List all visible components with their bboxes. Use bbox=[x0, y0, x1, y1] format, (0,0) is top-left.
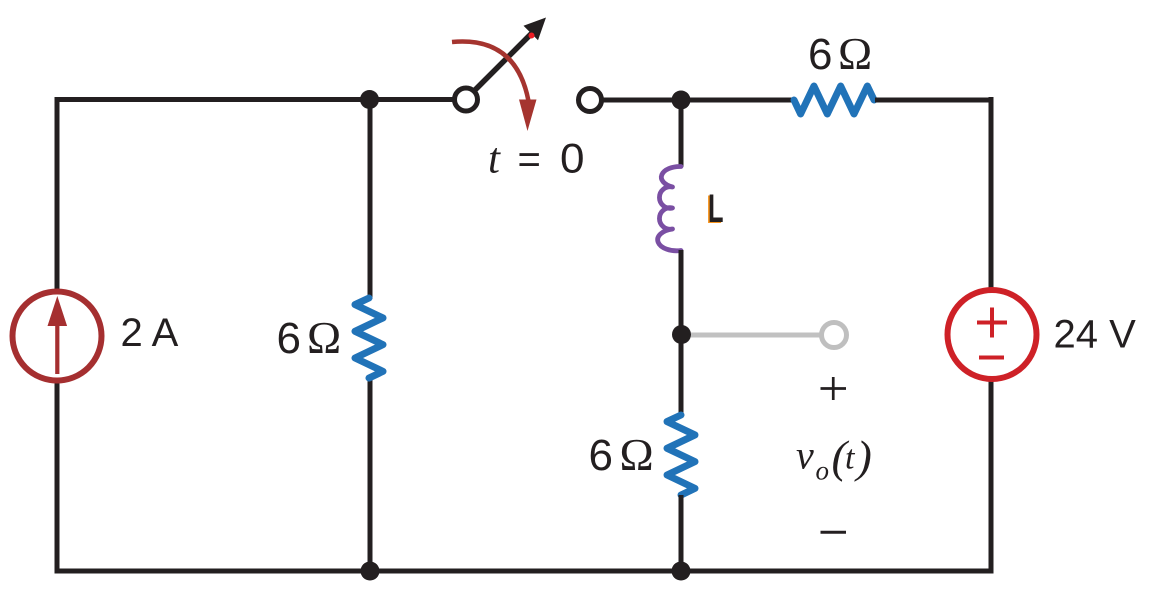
svg-text:6Ω: 6Ω bbox=[277, 312, 342, 363]
node: junction dot bottom of middle branch bbox=[361, 562, 380, 581]
svg-text:6Ω: 6Ω bbox=[589, 429, 654, 480]
resistor R3 6ohm lower inductor branch zigzag bbox=[667, 415, 695, 495]
resistor R2 6ohm top-right zigzag bbox=[794, 86, 874, 114]
wire: gray output lead bbox=[691, 333, 821, 338]
switch SW1 right terminal circle bbox=[579, 89, 602, 112]
svg-text:t: t bbox=[845, 440, 856, 477]
switch SW1 blade arrowhead bbox=[524, 18, 547, 41]
label plus polarity bbox=[821, 377, 847, 400]
wire: top horizontal from left corner to switch bbox=[55, 97, 454, 102]
wire: from R2 to top-right corner bbox=[875, 98, 994, 103]
svg-text:o: o bbox=[816, 456, 830, 486]
inductor L coil bbox=[658, 166, 681, 250]
wire: middle branch vertical (above R1) bbox=[368, 100, 373, 300]
wire: inductor branch from coil bottom to middle node bbox=[679, 250, 684, 416]
wire: bottom horizontal rail bbox=[55, 569, 994, 574]
node: junction dot top of inductor branch bbox=[672, 91, 691, 110]
wire: left vertical bottom segment bbox=[55, 383, 60, 574]
svg-text:t=0: t=0 bbox=[488, 135, 585, 183]
voltage source V1 minus sign bbox=[979, 356, 1004, 360]
svg-text:6Ω: 6Ω bbox=[808, 28, 872, 79]
wire: left vertical top segment bbox=[55, 100, 60, 290]
switch SW1 left terminal circle bbox=[455, 88, 478, 111]
switch SW1 blade bbox=[475, 32, 534, 91]
svg-text:24 V: 24 V bbox=[1054, 313, 1137, 357]
wire: middle branch vertical (below R1) bbox=[368, 378, 373, 571]
switch SW1 red pivot dot bbox=[529, 33, 535, 39]
wire: top horizontal from node to resistor R2 bbox=[681, 98, 794, 103]
resistor R1 6ohm middle branch zigzag bbox=[355, 298, 383, 378]
wire: below R3 to bottom rail bbox=[679, 495, 684, 571]
wire: right vertical above voltage source bbox=[989, 97, 994, 290]
node: junction dot bottom of inductor branch bbox=[672, 562, 691, 581]
switch SW1 opening motion curved arrow bbox=[452, 41, 529, 101]
svg-text:2 A: 2 A bbox=[121, 311, 179, 355]
current source I1 arrow bbox=[55, 322, 59, 374]
label minus polarity bbox=[821, 531, 847, 534]
svg-text:): ) bbox=[854, 431, 872, 482]
voltage source V1 circle bbox=[948, 290, 1037, 379]
node: junction dot at output tap bbox=[672, 325, 691, 344]
node: junction dot top of middle branch bbox=[360, 90, 379, 109]
current source I1 circle bbox=[13, 292, 102, 381]
wire: inductor branch from node to coil top bbox=[679, 100, 684, 167]
voltage source V1 plus sign bbox=[977, 308, 1007, 338]
wire: right vertical below voltage source bbox=[989, 381, 994, 574]
wire: from switch right terminal to inductor-branch top node bbox=[602, 98, 682, 103]
svg-text:v: v bbox=[796, 433, 814, 478]
output terminal gray circle bbox=[822, 323, 847, 348]
svg-text:L: L bbox=[708, 187, 724, 231]
switch SW1 curved arrow arrowhead bbox=[519, 100, 537, 132]
